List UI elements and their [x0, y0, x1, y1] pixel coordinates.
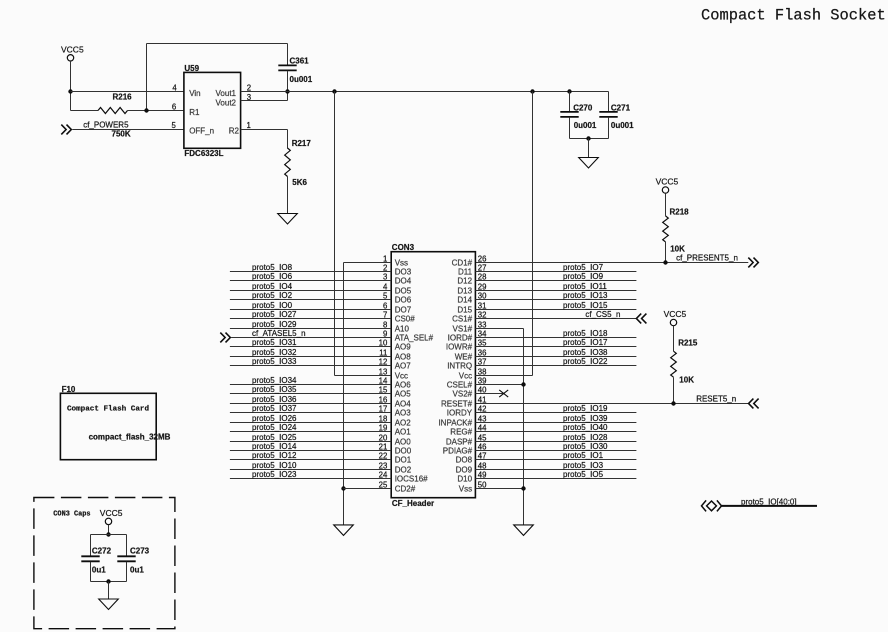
- svg-text:Vout2: Vout2: [216, 98, 237, 107]
- svg-text:VS2#: VS2#: [453, 389, 473, 398]
- svg-text:OFF_n: OFF_n: [189, 126, 214, 135]
- svg-text:FDC6323L: FDC6323L: [184, 149, 223, 158]
- svg-text:proto5_IO14: proto5_IO14: [252, 442, 297, 451]
- svg-text:proto5_IO29: proto5_IO29: [252, 320, 297, 329]
- svg-text:proto5_IO1: proto5_IO1: [563, 451, 604, 460]
- svg-text:DO4: DO4: [395, 276, 412, 285]
- svg-text:proto5_IO24: proto5_IO24: [252, 423, 297, 432]
- svg-text:R215: R215: [678, 338, 698, 347]
- svg-text:INTRQ: INTRQ: [447, 361, 472, 370]
- svg-text:39: 39: [478, 376, 487, 385]
- svg-text:VCC5: VCC5: [61, 45, 84, 55]
- svg-text:DO9: DO9: [456, 465, 473, 474]
- svg-text:28: 28: [478, 272, 487, 281]
- svg-text:19: 19: [379, 423, 388, 432]
- svg-text:Vcc: Vcc: [459, 371, 472, 380]
- svg-text:41: 41: [478, 395, 487, 404]
- svg-text:4: 4: [383, 282, 388, 291]
- svg-text:43: 43: [478, 414, 487, 423]
- svg-text:17: 17: [379, 404, 388, 413]
- svg-text:proto5_IO8: proto5_IO8: [252, 263, 293, 272]
- svg-text:proto5_IO33: proto5_IO33: [252, 357, 297, 366]
- svg-text:proto5_IO2: proto5_IO2: [252, 291, 293, 300]
- svg-text:DO1: DO1: [395, 455, 412, 464]
- svg-text:DO2: DO2: [395, 465, 412, 474]
- svg-text:2: 2: [383, 263, 387, 272]
- svg-text:50: 50: [478, 480, 487, 489]
- svg-text:proto5_IO26: proto5_IO26: [252, 414, 297, 423]
- svg-text:48: 48: [478, 461, 487, 470]
- svg-text:proto5_IO31: proto5_IO31: [252, 338, 297, 347]
- svg-text:AO6: AO6: [395, 380, 412, 389]
- svg-text:36: 36: [478, 348, 487, 357]
- svg-text:AO4: AO4: [395, 399, 412, 408]
- svg-text:proto5_IO18: proto5_IO18: [563, 329, 608, 338]
- svg-text:18: 18: [379, 414, 388, 423]
- svg-text:AO9: AO9: [395, 342, 412, 351]
- svg-text:proto5_IO39: proto5_IO39: [563, 414, 608, 423]
- svg-text:proto5_IO32: proto5_IO32: [252, 348, 297, 357]
- svg-text:proto5_IO11: proto5_IO11: [563, 282, 607, 291]
- svg-text:proto5_IO28: proto5_IO28: [563, 433, 608, 442]
- svg-text:21: 21: [379, 442, 388, 451]
- svg-text:5: 5: [172, 121, 177, 130]
- svg-text:22: 22: [379, 451, 388, 460]
- svg-text:6: 6: [172, 103, 176, 112]
- svg-text:proto5_IO15: proto5_IO15: [563, 301, 608, 310]
- svg-text:cf_CS5_n: cf_CS5_n: [585, 310, 620, 319]
- svg-text:proto5_IO9: proto5_IO9: [563, 272, 604, 281]
- svg-text:CSEL#: CSEL#: [447, 380, 473, 389]
- svg-text:D15: D15: [457, 305, 472, 314]
- svg-text:35: 35: [478, 338, 487, 347]
- svg-text:31: 31: [478, 301, 487, 310]
- svg-text:proto5_IO[40:0]: proto5_IO[40:0]: [741, 498, 797, 507]
- svg-text:42: 42: [478, 404, 487, 413]
- svg-text:CD2#: CD2#: [395, 484, 416, 493]
- svg-text:INPACK#: INPACK#: [438, 418, 472, 427]
- svg-text:AO3: AO3: [395, 408, 412, 417]
- svg-text:proto5_IO10: proto5_IO10: [252, 461, 297, 470]
- svg-text:24: 24: [379, 470, 388, 479]
- svg-text:IORD#: IORD#: [448, 333, 473, 342]
- svg-text:D14: D14: [457, 295, 472, 304]
- svg-text:proto5_IO0: proto5_IO0: [252, 301, 293, 310]
- svg-text:33: 33: [478, 320, 487, 329]
- svg-text:DO7: DO7: [395, 305, 412, 314]
- svg-text:40: 40: [478, 385, 487, 394]
- svg-text:14: 14: [379, 376, 388, 385]
- svg-text:cf_ATASEL5_n: cf_ATASEL5_n: [252, 329, 306, 338]
- svg-text:D12: D12: [457, 276, 472, 285]
- svg-text:Vcc: Vcc: [395, 371, 408, 380]
- svg-text:C361: C361: [290, 57, 310, 66]
- svg-text:0u1: 0u1: [130, 566, 144, 575]
- svg-text:proto5_IO19: proto5_IO19: [563, 404, 608, 413]
- svg-text:Compact Flash Card: Compact Flash Card: [67, 406, 149, 414]
- svg-text:IOWR#: IOWR#: [446, 342, 473, 351]
- svg-text:CD1#: CD1#: [452, 258, 473, 267]
- svg-text:RESET#: RESET#: [441, 399, 473, 408]
- svg-text:49: 49: [478, 470, 487, 479]
- svg-text:C272: C272: [92, 547, 112, 556]
- svg-text:REG#: REG#: [450, 427, 472, 436]
- svg-text:CS0#: CS0#: [395, 314, 416, 323]
- svg-text:10: 10: [379, 338, 388, 347]
- svg-text:11: 11: [379, 348, 387, 357]
- svg-text:Vin: Vin: [189, 89, 200, 98]
- svg-text:AO0: AO0: [395, 437, 412, 446]
- svg-text:RESET5_n: RESET5_n: [696, 394, 736, 403]
- svg-text:VCC5: VCC5: [100, 508, 123, 518]
- svg-text:CON3 Caps: CON3 Caps: [53, 510, 90, 518]
- svg-text:VCC5: VCC5: [664, 309, 687, 319]
- svg-text:F10: F10: [62, 385, 76, 394]
- svg-text:R1: R1: [189, 108, 200, 117]
- svg-text:CF_Header: CF_Header: [392, 499, 434, 508]
- svg-text:C270: C270: [573, 104, 593, 113]
- svg-text:proto5_IO13: proto5_IO13: [563, 291, 608, 300]
- svg-text:AO5: AO5: [395, 389, 412, 398]
- svg-text:proto5_IO3: proto5_IO3: [563, 461, 604, 470]
- svg-text:IORDY: IORDY: [447, 408, 473, 417]
- svg-text:37: 37: [478, 357, 487, 366]
- svg-text:10K: 10K: [679, 376, 694, 385]
- svg-text:DASP#: DASP#: [446, 437, 473, 446]
- svg-text:compact_flash_32MB: compact_flash_32MB: [89, 433, 171, 442]
- svg-text:34: 34: [478, 329, 487, 338]
- svg-text:0u1: 0u1: [92, 566, 106, 575]
- svg-text:proto5_IO36: proto5_IO36: [252, 395, 297, 404]
- svg-text:proto5_IO40: proto5_IO40: [563, 423, 608, 432]
- svg-text:DO0: DO0: [395, 446, 412, 455]
- svg-text:D13: D13: [457, 286, 472, 295]
- svg-text:Vout1: Vout1: [216, 89, 237, 98]
- svg-text:5K6: 5K6: [292, 178, 307, 187]
- svg-text:38: 38: [478, 367, 487, 376]
- svg-text:proto5_IO35: proto5_IO35: [252, 385, 297, 394]
- svg-text:proto5_IO23: proto5_IO23: [252, 470, 297, 479]
- svg-text:45: 45: [478, 433, 487, 442]
- svg-text:A10: A10: [395, 324, 410, 333]
- svg-text:30: 30: [478, 291, 487, 300]
- svg-text:AO1: AO1: [395, 427, 412, 436]
- svg-text:Vss: Vss: [459, 484, 472, 493]
- svg-text:IOCS16#: IOCS16#: [395, 474, 428, 483]
- svg-text:cf_PRESENT5_n: cf_PRESENT5_n: [676, 253, 738, 262]
- svg-text:16: 16: [379, 395, 388, 404]
- svg-text:VS1#: VS1#: [453, 324, 473, 333]
- svg-text:C271: C271: [611, 104, 631, 113]
- svg-text:proto5_IO25: proto5_IO25: [252, 433, 297, 442]
- svg-text:6: 6: [383, 301, 387, 310]
- svg-text:proto5_IO7: proto5_IO7: [563, 263, 604, 272]
- svg-text:20: 20: [379, 433, 388, 442]
- svg-text:7: 7: [383, 310, 387, 319]
- svg-text:27: 27: [478, 263, 487, 272]
- svg-text:R216: R216: [113, 92, 133, 101]
- svg-text:32: 32: [478, 310, 487, 319]
- svg-text:DO3: DO3: [395, 267, 412, 276]
- svg-text:proto5_IO30: proto5_IO30: [563, 442, 608, 451]
- svg-text:3: 3: [383, 272, 387, 281]
- svg-text:5: 5: [383, 291, 388, 300]
- svg-text:26: 26: [478, 254, 487, 263]
- svg-text:VCC5: VCC5: [656, 177, 679, 187]
- svg-text:CS1#: CS1#: [452, 314, 473, 323]
- svg-text:4: 4: [172, 83, 177, 92]
- svg-text:DO6: DO6: [395, 295, 412, 304]
- svg-text:C273: C273: [130, 547, 150, 556]
- svg-text:AO8: AO8: [395, 352, 412, 361]
- svg-text:13: 13: [379, 367, 388, 376]
- svg-text:9: 9: [383, 329, 387, 338]
- svg-text:12: 12: [379, 357, 388, 366]
- svg-text:23: 23: [379, 461, 388, 470]
- svg-text:1: 1: [247, 121, 251, 130]
- svg-text:PDIAG#: PDIAG#: [443, 446, 473, 455]
- svg-text:proto5_IO34: proto5_IO34: [252, 376, 297, 385]
- svg-text:AO2: AO2: [395, 418, 412, 427]
- svg-text:Vss: Vss: [395, 258, 408, 267]
- svg-text:R218: R218: [670, 207, 690, 216]
- svg-text:R2: R2: [229, 126, 240, 135]
- svg-text:44: 44: [478, 423, 487, 432]
- svg-text:CON3: CON3: [392, 243, 415, 252]
- svg-text:R217: R217: [292, 139, 312, 148]
- svg-text:cf_POWER5: cf_POWER5: [83, 121, 129, 130]
- svg-text:29: 29: [478, 282, 487, 291]
- svg-text:Compact Flash Socket: Compact Flash Socket: [701, 6, 886, 24]
- svg-text:10K: 10K: [670, 244, 685, 253]
- svg-text:proto5_IO17: proto5_IO17: [563, 338, 608, 347]
- svg-text:8: 8: [383, 320, 387, 329]
- svg-text:0u001: 0u001: [611, 121, 634, 130]
- svg-text:proto5_IO12: proto5_IO12: [252, 451, 297, 460]
- svg-text:proto5_IO37: proto5_IO37: [252, 404, 297, 413]
- svg-text:0u001: 0u001: [574, 121, 597, 130]
- svg-text:D11: D11: [458, 267, 473, 276]
- svg-text:DO8: DO8: [456, 455, 473, 464]
- svg-text:46: 46: [478, 442, 487, 451]
- svg-text:ATA_SEL#: ATA_SEL#: [395, 333, 434, 342]
- svg-text:1: 1: [383, 254, 387, 263]
- svg-text:WE#: WE#: [455, 352, 473, 361]
- svg-text:proto5_IO4: proto5_IO4: [252, 282, 293, 291]
- svg-text:proto5_IO22: proto5_IO22: [563, 357, 608, 366]
- svg-text:750K: 750K: [112, 129, 131, 138]
- svg-text:U59: U59: [184, 64, 199, 73]
- svg-text:47: 47: [478, 451, 487, 460]
- svg-text:proto5_IO38: proto5_IO38: [563, 348, 608, 357]
- svg-text:0u001: 0u001: [290, 75, 313, 84]
- svg-text:15: 15: [379, 385, 388, 394]
- svg-text:D10: D10: [457, 474, 472, 483]
- svg-text:proto5_IO27: proto5_IO27: [252, 310, 297, 319]
- svg-text:25: 25: [379, 480, 388, 489]
- svg-text:AO7: AO7: [395, 361, 412, 370]
- svg-text:proto5_IO6: proto5_IO6: [252, 272, 293, 281]
- svg-text:proto5_IO5: proto5_IO5: [563, 470, 604, 479]
- svg-text:DO5: DO5: [395, 286, 412, 295]
